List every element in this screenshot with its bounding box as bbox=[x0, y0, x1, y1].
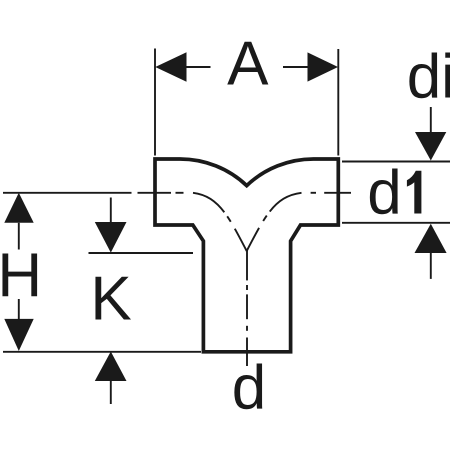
svg-text:d: d bbox=[232, 353, 266, 422]
svg-text:di: di bbox=[407, 43, 450, 112]
svg-text:H: H bbox=[0, 242, 42, 311]
svg-text:K: K bbox=[90, 265, 131, 334]
svg-text:A: A bbox=[227, 30, 269, 99]
svg-text:d: d bbox=[367, 159, 401, 228]
